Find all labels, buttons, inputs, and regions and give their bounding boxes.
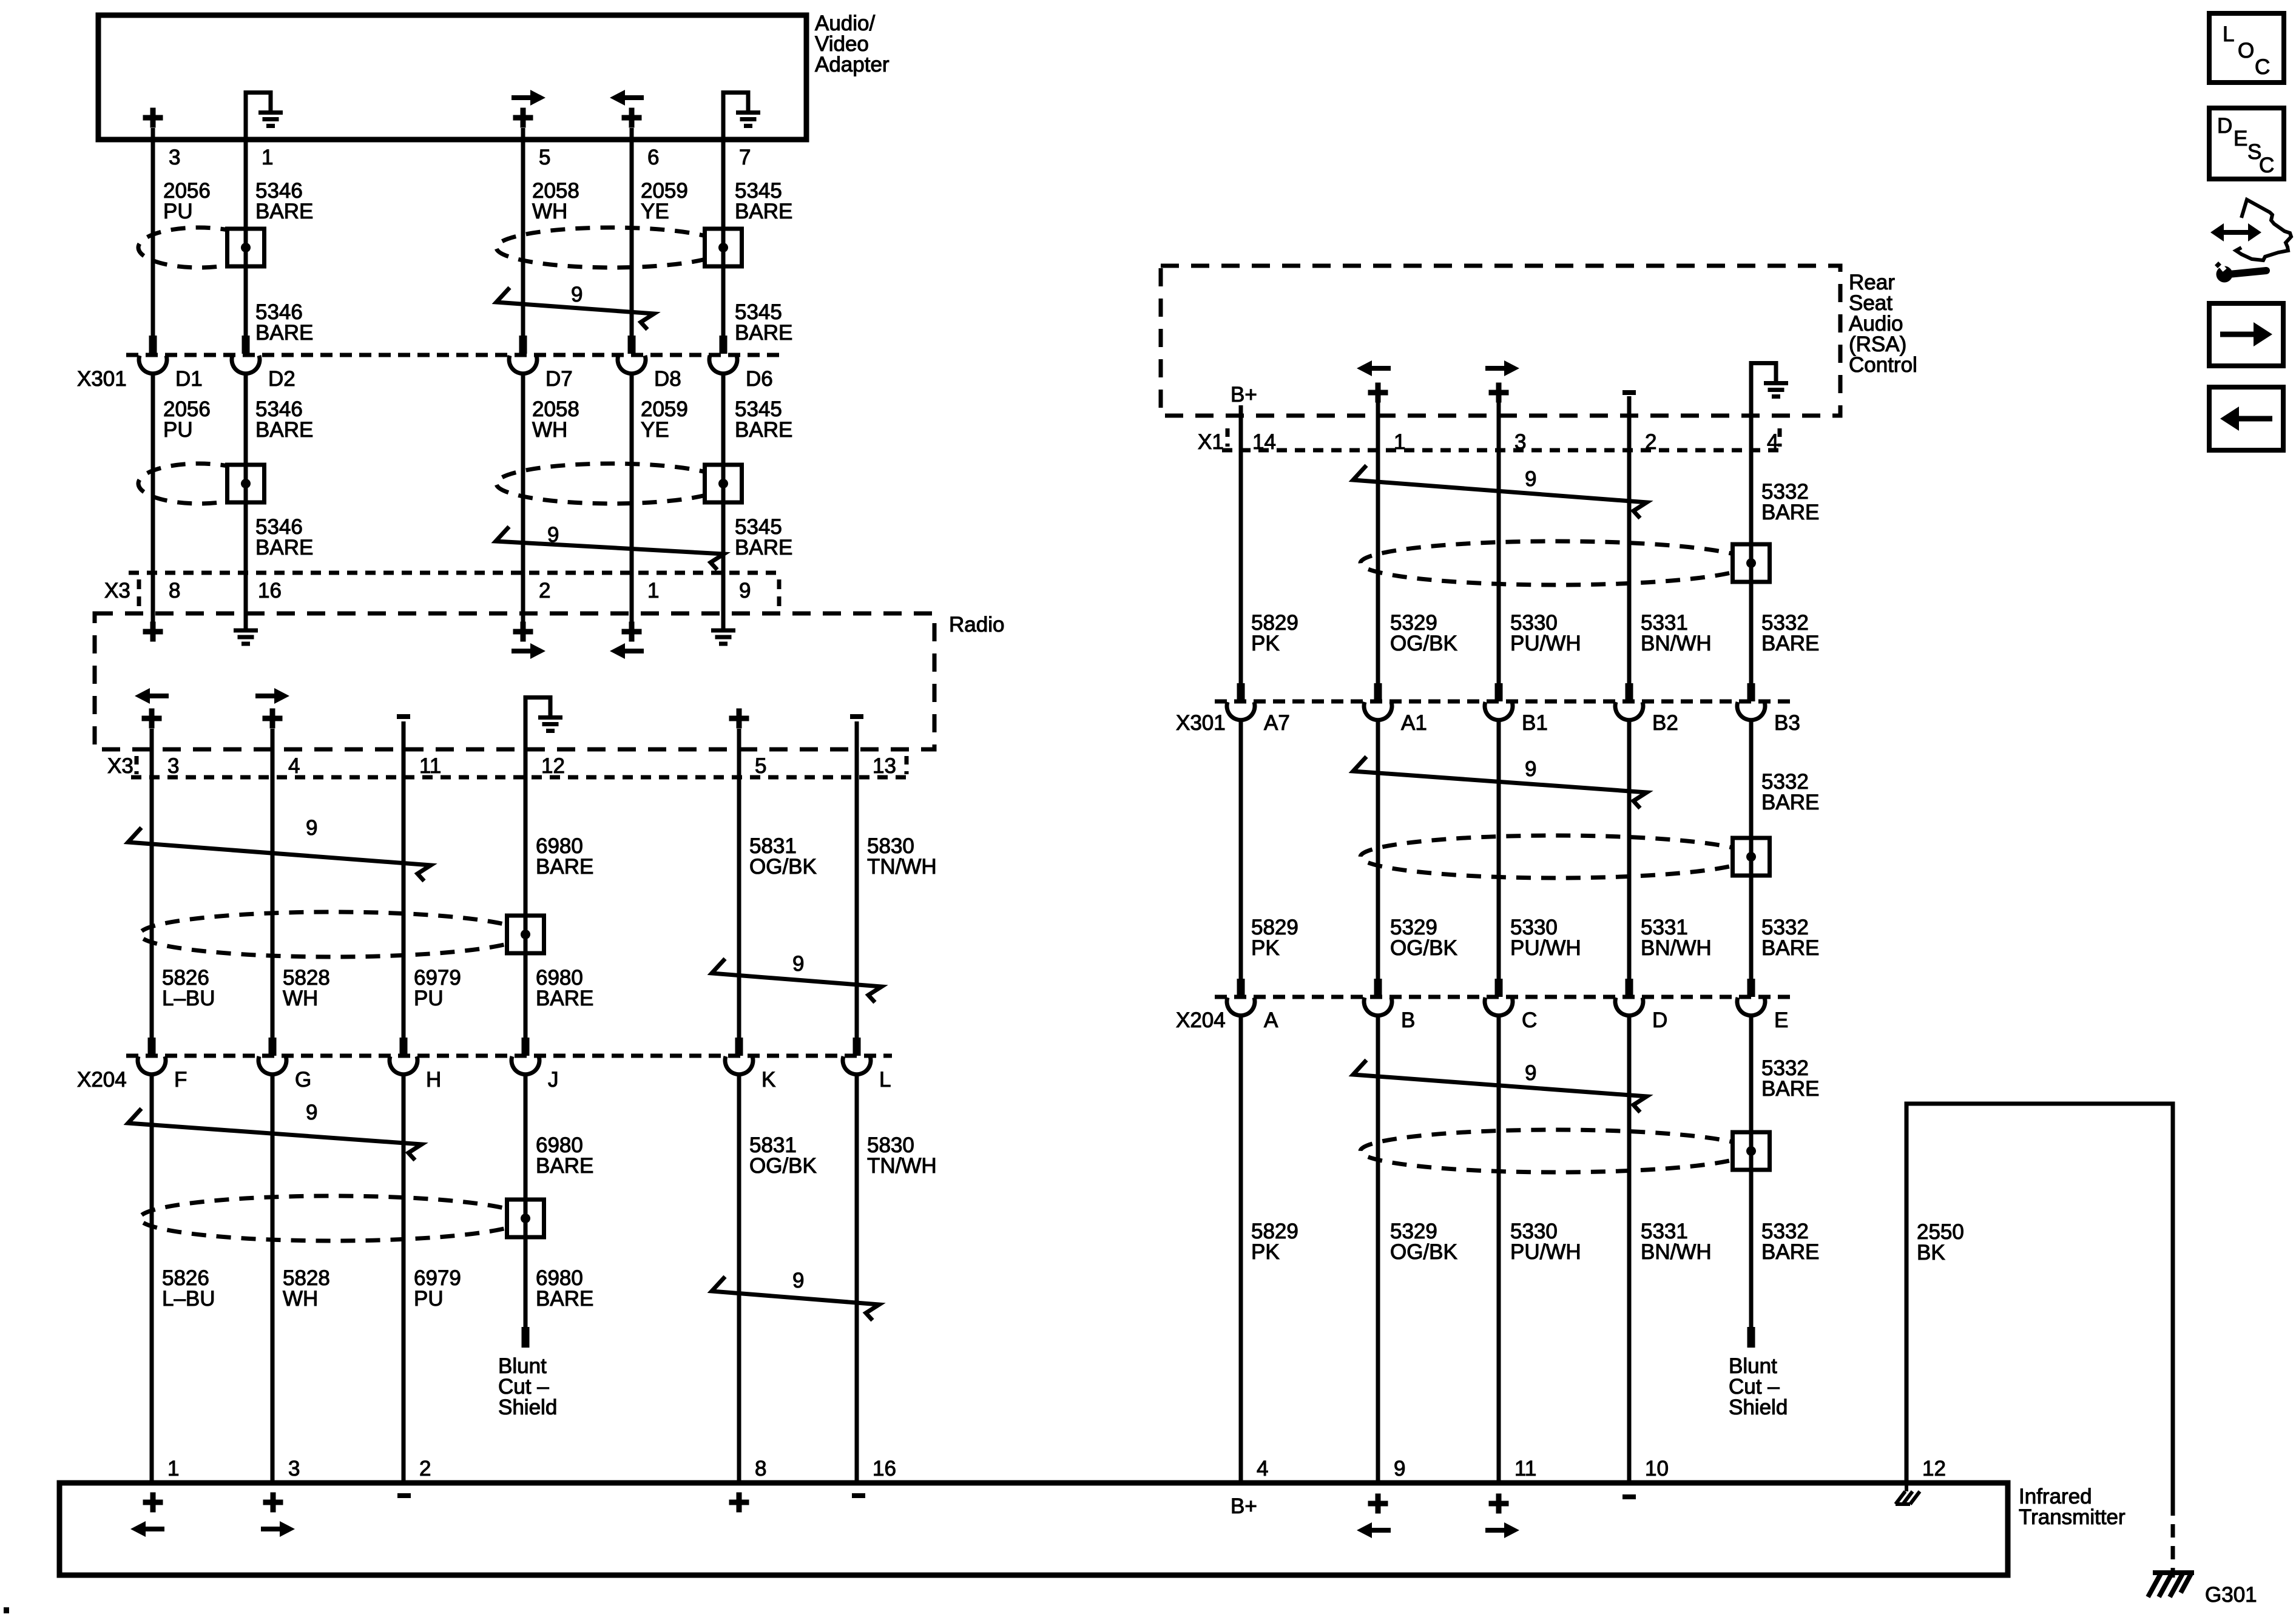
svg-text:BK: BK [1917,1241,1945,1264]
svg-text:9: 9 [306,1101,317,1124]
blunt cut pin wire 5332 [1751,1327,1752,1348]
icon back arrow [2238,416,2272,422]
svg-text:A1: A1 [1401,711,1427,735]
wire 5826 L-BU seg A (radio to X204) [150,729,154,1038]
shield ellipse pair 2056/5346 row1 [138,228,260,268]
svg-text:B+: B+ [1231,1494,1257,1518]
svg-text:K: K [761,1068,775,1092]
svg-text:C: C [1522,1008,1537,1032]
svg-text:BARE: BARE [1761,791,1819,814]
wire 5331 BN/WH seg B [1627,721,1632,979]
svg-text:D2: D2 [268,367,295,391]
twisted pair symbol 9 (RSA) row1 [1353,465,1647,518]
wire 5831 OG/BK seg B [737,1076,741,1483]
connector X301 pin B3 terminal [1751,683,1752,701]
wire 6980 BARE seg A [524,695,528,1038]
svg-text:L: L [2223,22,2234,46]
svg-text:E: E [2234,127,2247,150]
wire 5829 PK seg B (X301 to X204) [1239,721,1243,979]
radio + terminal pin1 [622,622,642,642]
svg-text:3: 3 [288,1457,300,1480]
svg-text:YE: YE [641,200,669,223]
wire 5345 BARE seg B [721,375,726,629]
connector X204 pin H terminal [403,1038,404,1056]
svg-text:3: 3 [1514,430,1526,454]
svg-text:BN/WH: BN/WH [1641,936,1712,960]
IR output arrow pin11 [1485,1522,1519,1538]
twisted pair symbol 9 (5826/5828) row2 [128,1109,422,1160]
svg-text:4: 4 [1767,430,1778,454]
RSA output arrow pin3 [1485,360,1519,376]
svg-text:G301: G301 [2205,1583,2257,1607]
svg-text:BARE: BARE [536,1287,593,1311]
svg-text:X204: X204 [77,1068,127,1092]
connector X204 pin C terminal [1498,979,1499,997]
IR - terminal pin16 [852,1495,865,1496]
AV adapter + terminal pin6 [622,108,642,128]
svg-text:PU: PU [163,200,193,223]
wire 5829 PK seg C (X204 to IR box) [1239,1016,1243,1483]
svg-text:WH: WH [532,200,567,223]
shield square junction dot [718,479,728,488]
AV adapter + terminal pin3 [143,108,163,128]
IR chassis ground pin12 [1896,1485,1920,1504]
svg-text:TN/WH: TN/WH [867,855,937,879]
svg-text:B3: B3 [1774,711,1800,735]
AV adapter + terminal pin5 [513,108,533,128]
shield square junction dot [1746,852,1756,862]
wire 5330 PU/WH seg B [1497,721,1501,979]
svg-text:BARE: BARE [1761,501,1819,524]
wire 6980 BARE seg B (to blunt cut) [524,1076,528,1327]
connector X204 pin K terminal [738,1038,740,1056]
connector X3 lower dotted line [131,775,908,780]
svg-text:BN/WH: BN/WH [1641,632,1712,655]
shield ellipse RSA group row1 [1360,541,1751,585]
svg-text:BARE: BARE [735,536,792,559]
connector X3 upper right tick [777,579,782,607]
wire 5346 BARE seg B [244,375,248,629]
svg-text:O: O [2238,39,2254,62]
svg-text:9: 9 [792,952,804,976]
wire 6979 PU seg B [402,1076,406,1483]
IR input arrow pin9 [1357,1522,1391,1538]
icon forward arrow box [2209,303,2283,366]
wire 5332 BARE seg C (to blunt cut) [1749,1016,1754,1327]
svg-text:PU: PU [414,987,444,1010]
radio input arrow pin3 [135,688,169,704]
shield termination square wire 6980 row1 [507,916,544,953]
shield square junction dot [718,243,728,252]
connector X3 lower right tick [905,756,909,774]
wire 5346 BARE seg A [244,92,248,336]
svg-text:WH: WH [532,418,567,442]
wire 5329 OG/BK seg C [1376,1016,1380,1483]
shield termination square wire 5346 row1 [228,229,265,266]
svg-text:9: 9 [306,816,317,840]
shield square junction dot [521,930,530,939]
svg-text:OG/BK: OG/BK [1390,1240,1457,1264]
svg-text:Adapter: Adapter [815,53,890,76]
svg-text:BARE: BARE [255,536,313,559]
svg-text:14: 14 [1252,430,1276,454]
svg-text:D6: D6 [746,367,773,391]
svg-text:BARE: BARE [255,321,313,345]
svg-text:D8: D8 [654,367,681,391]
svg-text:9: 9 [739,579,751,603]
RSA + terminal pin1 [1368,383,1388,403]
shield termination square wire 5332 row1 [1733,544,1770,582]
svg-text:D: D [2217,114,2232,138]
radio output arrow pin2 [512,643,545,659]
shield ellipse radio group row2 [140,1196,525,1241]
Radio box (dashed) [95,613,934,749]
svg-text:1: 1 [1394,430,1405,454]
connector X204 right dashed line [1215,995,1790,999]
shield square junction dot [521,1214,530,1223]
svg-text:PU/WH: PU/WH [1510,1240,1581,1264]
svg-text:9: 9 [1525,757,1536,781]
svg-text:J: J [548,1068,559,1092]
wire 5330 PU/WH seg A [1497,398,1501,683]
svg-text:F: F [174,1068,187,1092]
wire 5331 BN/WH seg C [1627,1016,1632,1483]
svg-text:BARE: BARE [1761,632,1819,655]
svg-text:B+: B+ [1231,383,1257,407]
svg-text:1: 1 [647,579,659,603]
svg-text:1: 1 [167,1457,179,1480]
svg-text:X3: X3 [107,754,133,778]
svg-text:9: 9 [1525,1061,1536,1085]
wire 5332 BARE seg B [1749,721,1754,979]
svg-text:10: 10 [1645,1457,1669,1480]
wire 5826 L-BU seg B (X204 to IR box) [150,1076,154,1483]
svg-text:PU/WH: PU/WH [1510,936,1581,960]
shield termination square wire 6980 row2 [507,1200,544,1237]
IR output arrow pin3 [261,1521,295,1537]
radio + terminal pin5 [729,709,749,729]
twisted pair symbol 9 (5831/5830) row2 [712,1277,879,1320]
svg-text:WH: WH [283,987,318,1010]
wire 2058 WH seg B [521,375,525,623]
shield square junction dot [1746,558,1756,568]
connector X301 pin D2 terminal [245,336,246,354]
radio - terminal pin11 [397,716,410,717]
shield termination square wire 5332 row3 [1733,1132,1770,1170]
svg-text:4: 4 [1257,1457,1268,1480]
icon back arrow box [2209,387,2283,450]
svg-text:5: 5 [755,754,766,778]
shield ellipse RSA group row3 [1360,1130,1751,1172]
svg-text:11: 11 [419,754,441,778]
IR + terminal pin3 [263,1493,283,1513]
wire 2056 PU seg B (X301 to radio) [151,375,155,623]
svg-text:B1: B1 [1522,711,1548,735]
svg-text:3: 3 [167,754,179,778]
wire 2550 BK (pin 12 up, over, down to G301) [1906,1104,2173,1502]
connector X204 pin L terminal [856,1038,857,1056]
twisted pair symbol 9 (5831/5830) row1 [712,959,882,1002]
page artifact dot [4,1607,9,1613]
svg-text:L–BU: L–BU [162,987,215,1010]
svg-text:2: 2 [1645,430,1656,454]
svg-text:9: 9 [547,523,559,547]
RSA input arrow pin1 [1357,360,1391,376]
svg-text:Transmitter: Transmitter [2019,1505,2125,1529]
svg-text:PU: PU [163,418,193,442]
svg-text:D1: D1 [175,367,203,391]
svg-text:BN/WH: BN/WH [1641,1240,1712,1264]
IR - terminal pin2 [397,1495,411,1496]
svg-text:X301: X301 [1176,711,1226,735]
radio ground symbol pin9 [711,630,735,644]
svg-text:BARE: BARE [536,855,593,879]
svg-text:X301: X301 [77,367,127,391]
svg-text:BARE: BARE [1761,1240,1819,1264]
connector X1 left tick [1226,428,1230,447]
Rear Seat Audio (RSA) Control box (dashed) [1161,266,1840,416]
connector X301 pin A7 terminal [1240,683,1241,701]
connector X3 upper dotted line [129,571,783,575]
svg-text:3: 3 [169,146,180,169]
IR + terminal pin8 [729,1493,749,1513]
svg-text:12: 12 [1922,1457,1946,1480]
radio + terminal pin4 [263,709,283,729]
svg-text:BARE: BARE [735,200,792,223]
shield termination square wire 5346 row2 [228,465,265,502]
connector X301 pin B1 terminal [1498,683,1499,701]
svg-text:OG/BK: OG/BK [749,1154,817,1178]
icon DESC box [2209,108,2284,179]
AV adapter ground symbol pin7 [723,90,760,141]
svg-text:11: 11 [1514,1457,1536,1480]
IR - terminal pin10 [1622,1496,1636,1497]
svg-text:PU: PU [414,1287,444,1311]
svg-text:OG/BK: OG/BK [1390,632,1457,655]
radio - terminal pin13 [850,716,863,717]
svg-text:TN/WH: TN/WH [867,1154,937,1178]
svg-text:8: 8 [169,579,180,603]
twisted pair symbol 9 (2058/2059) row2 [496,527,724,570]
wire 5830 TN/WH seg B [855,1076,859,1483]
svg-text:BARE: BARE [1761,936,1819,960]
svg-text:BARE: BARE [536,1154,593,1178]
svg-text:9: 9 [1525,467,1536,491]
radio input arrow pin1 [610,643,644,659]
svg-text:A7: A7 [1264,711,1290,735]
svg-text:OG/BK: OG/BK [1390,936,1457,960]
connector X204 pin A terminal [1240,979,1241,997]
svg-text:PK: PK [1251,1240,1280,1264]
IR + terminal pin1 [143,1493,163,1513]
svg-text:BARE: BARE [735,418,792,442]
radio + terminal pin8 [143,622,163,642]
shield square junction dot [1746,1146,1756,1156]
wire 6979 PU seg A [402,721,406,1038]
shield ellipse RSA group row2 [1360,836,1751,878]
svg-text:PK: PK [1251,936,1280,960]
wire 5830 TN/WH seg A [855,721,859,1038]
svg-text:12: 12 [541,754,565,778]
wire 5831 OG/BK seg A [737,729,741,1038]
twisted pair symbol 9 (RSA) row2 [1353,757,1647,808]
svg-text:16: 16 [873,1457,896,1480]
wire 5829 PK seg A (RSA to X301) [1239,405,1243,683]
connector X204 pin E terminal [1751,979,1752,997]
svg-text:PK: PK [1251,632,1280,655]
svg-text:YE: YE [641,418,669,442]
svg-text:BARE: BARE [1761,1077,1819,1101]
connector X301 pin A1 terminal [1377,683,1379,701]
connector X301 left dashed line [126,353,783,357]
connector X301 pin D1 terminal [152,336,154,354]
svg-text:H: H [426,1068,441,1092]
wire 2059 YE seg B [630,375,634,623]
IR + terminal pin9 [1368,1494,1388,1514]
connector X301 pin D6 terminal [723,336,724,354]
wire 5828 WH seg B [271,1076,275,1483]
svg-text:X1: X1 [1198,430,1224,454]
connector X204 left dashed line [126,1054,892,1058]
shield ellipse pair 2056/5346 row2 [138,464,260,504]
wire 5329 OG/BK seg B [1376,721,1380,979]
svg-text:WH: WH [283,1287,318,1311]
svg-text:X3: X3 [104,579,130,603]
svg-text:B2: B2 [1652,711,1678,735]
svg-text:Control: Control [1849,353,1917,377]
svg-text:L–BU: L–BU [162,1287,215,1311]
shield termination square wire 5332 row2 [1733,838,1770,876]
svg-text:1: 1 [262,146,273,169]
RSA ground symbol pin4 [1751,361,1788,412]
AV adapter ground symbol pin1 [246,90,283,141]
svg-text:9: 9 [571,283,582,306]
connector X1 right tick [1778,428,1782,447]
radio ground symbol pin16 [234,630,258,644]
svg-text:C: C [2255,55,2270,79]
svg-text:9: 9 [1394,1457,1405,1480]
connector X204 pin B terminal [1377,979,1379,997]
RSA + terminal pin3 [1489,383,1509,403]
twisted pair symbol 9 (5826/5828) row1 [128,828,431,881]
wire 5828 WH seg A [271,729,275,1038]
svg-text:BARE: BARE [255,200,313,223]
IR + terminal pin11 [1489,1494,1509,1514]
icon LOC box [2209,13,2284,83]
twisted pair symbol 9 (2058/2059) row1 [496,288,654,329]
wire 2058 WH seg A [521,128,525,336]
svg-text:8: 8 [755,1457,766,1480]
connector X301 pin B2 terminal [1629,683,1630,701]
svg-text:D: D [1652,1008,1667,1032]
svg-text:4: 4 [288,754,300,778]
shield square junction dot [241,243,251,252]
connector X204 pin G terminal [272,1038,273,1056]
svg-text:A: A [1264,1008,1278,1032]
connector X1 dotted line [1222,448,1784,453]
shield square junction dot [241,479,251,488]
svg-text:OG/BK: OG/BK [749,855,817,879]
connector X301 right dashed line [1215,700,1790,704]
wire 2059 YE seg A [630,128,634,336]
wire 5329 OG/BK seg A [1376,398,1380,683]
svg-text:Radio: Radio [949,613,1004,636]
G301 chassis ground symbol [2148,1573,2194,1597]
svg-text:G: G [295,1068,311,1092]
shield ellipse radio group row1 [140,912,525,957]
connector X204 pin D terminal [1629,979,1630,997]
icon wrench double arrow [2221,230,2250,235]
radio + terminal pin3 [142,709,162,729]
svg-text:PU/WH: PU/WH [1510,632,1581,655]
wire 5332 BARE seg A [1749,363,1754,683]
connector X3 lower left tick [135,756,139,774]
icon forward arrow [2220,332,2255,337]
svg-text:BARE: BARE [735,321,792,345]
svg-text:BARE: BARE [255,418,313,442]
svg-text:D7: D7 [545,367,573,391]
Infrared Transmitter box [59,1483,2008,1575]
svg-text:5: 5 [539,146,550,169]
shield ellipse pair 2058-2059/5345 row2 [496,464,727,504]
shield termination square wire 5345 row1 [705,229,742,266]
svg-text:C: C [2259,154,2274,177]
svg-text:6: 6 [647,146,659,169]
twisted pair symbol 9 (RSA) row3 [1353,1060,1647,1112]
connector X204 pin J terminal [525,1038,526,1056]
svg-text:Shield: Shield [1729,1396,1788,1419]
wire 2550 BK dashed segment to G301 [2171,1502,2175,1578]
radio ground symbol pin12 [525,695,562,746]
svg-text:2: 2 [419,1457,431,1480]
RSA - terminal pin2 [1622,392,1636,393]
svg-text:Shield: Shield [498,1396,557,1419]
svg-text:7: 7 [739,146,751,169]
svg-text:16: 16 [258,579,282,603]
icon wrench outline shape [2236,200,2291,260]
wire 5331 BN/WH seg A [1627,396,1632,683]
svg-text:L: L [879,1068,891,1092]
svg-text:2: 2 [539,579,550,603]
wire 5345 BARE seg A [721,92,726,336]
blunt cut pin wire 6980 [525,1327,526,1348]
radio + terminal pin2 [513,622,533,642]
svg-text:13: 13 [873,754,896,778]
IR input arrow pin1 [130,1521,164,1537]
wire 5330 PU/WH seg C [1497,1016,1501,1483]
shield termination square wire 5345 row2 [705,465,742,502]
connector X204 pin F terminal [151,1038,152,1056]
shield ellipse pair 2058-2059/5345 row1 [496,228,727,268]
wire 2056 PU seg A (AV box to X301) [151,128,155,336]
radio output arrow pin4 [255,688,289,704]
svg-text:E: E [1774,1008,1788,1032]
connector X301 pin D8 terminal [631,336,632,354]
Audio/Video Adapter box [98,15,806,140]
connector X301 pin D7 terminal [522,336,524,354]
svg-text:B: B [1401,1008,1415,1032]
AV adapter input arrow pin6 [610,90,644,106]
svg-text:BARE: BARE [536,987,593,1010]
connector X3 upper left tick [137,579,141,607]
AV adapter output arrow pin5 [512,90,545,106]
svg-text:9: 9 [792,1269,804,1292]
icon wrench tool [2217,266,2233,283]
svg-text:X204: X204 [1176,1008,1226,1032]
